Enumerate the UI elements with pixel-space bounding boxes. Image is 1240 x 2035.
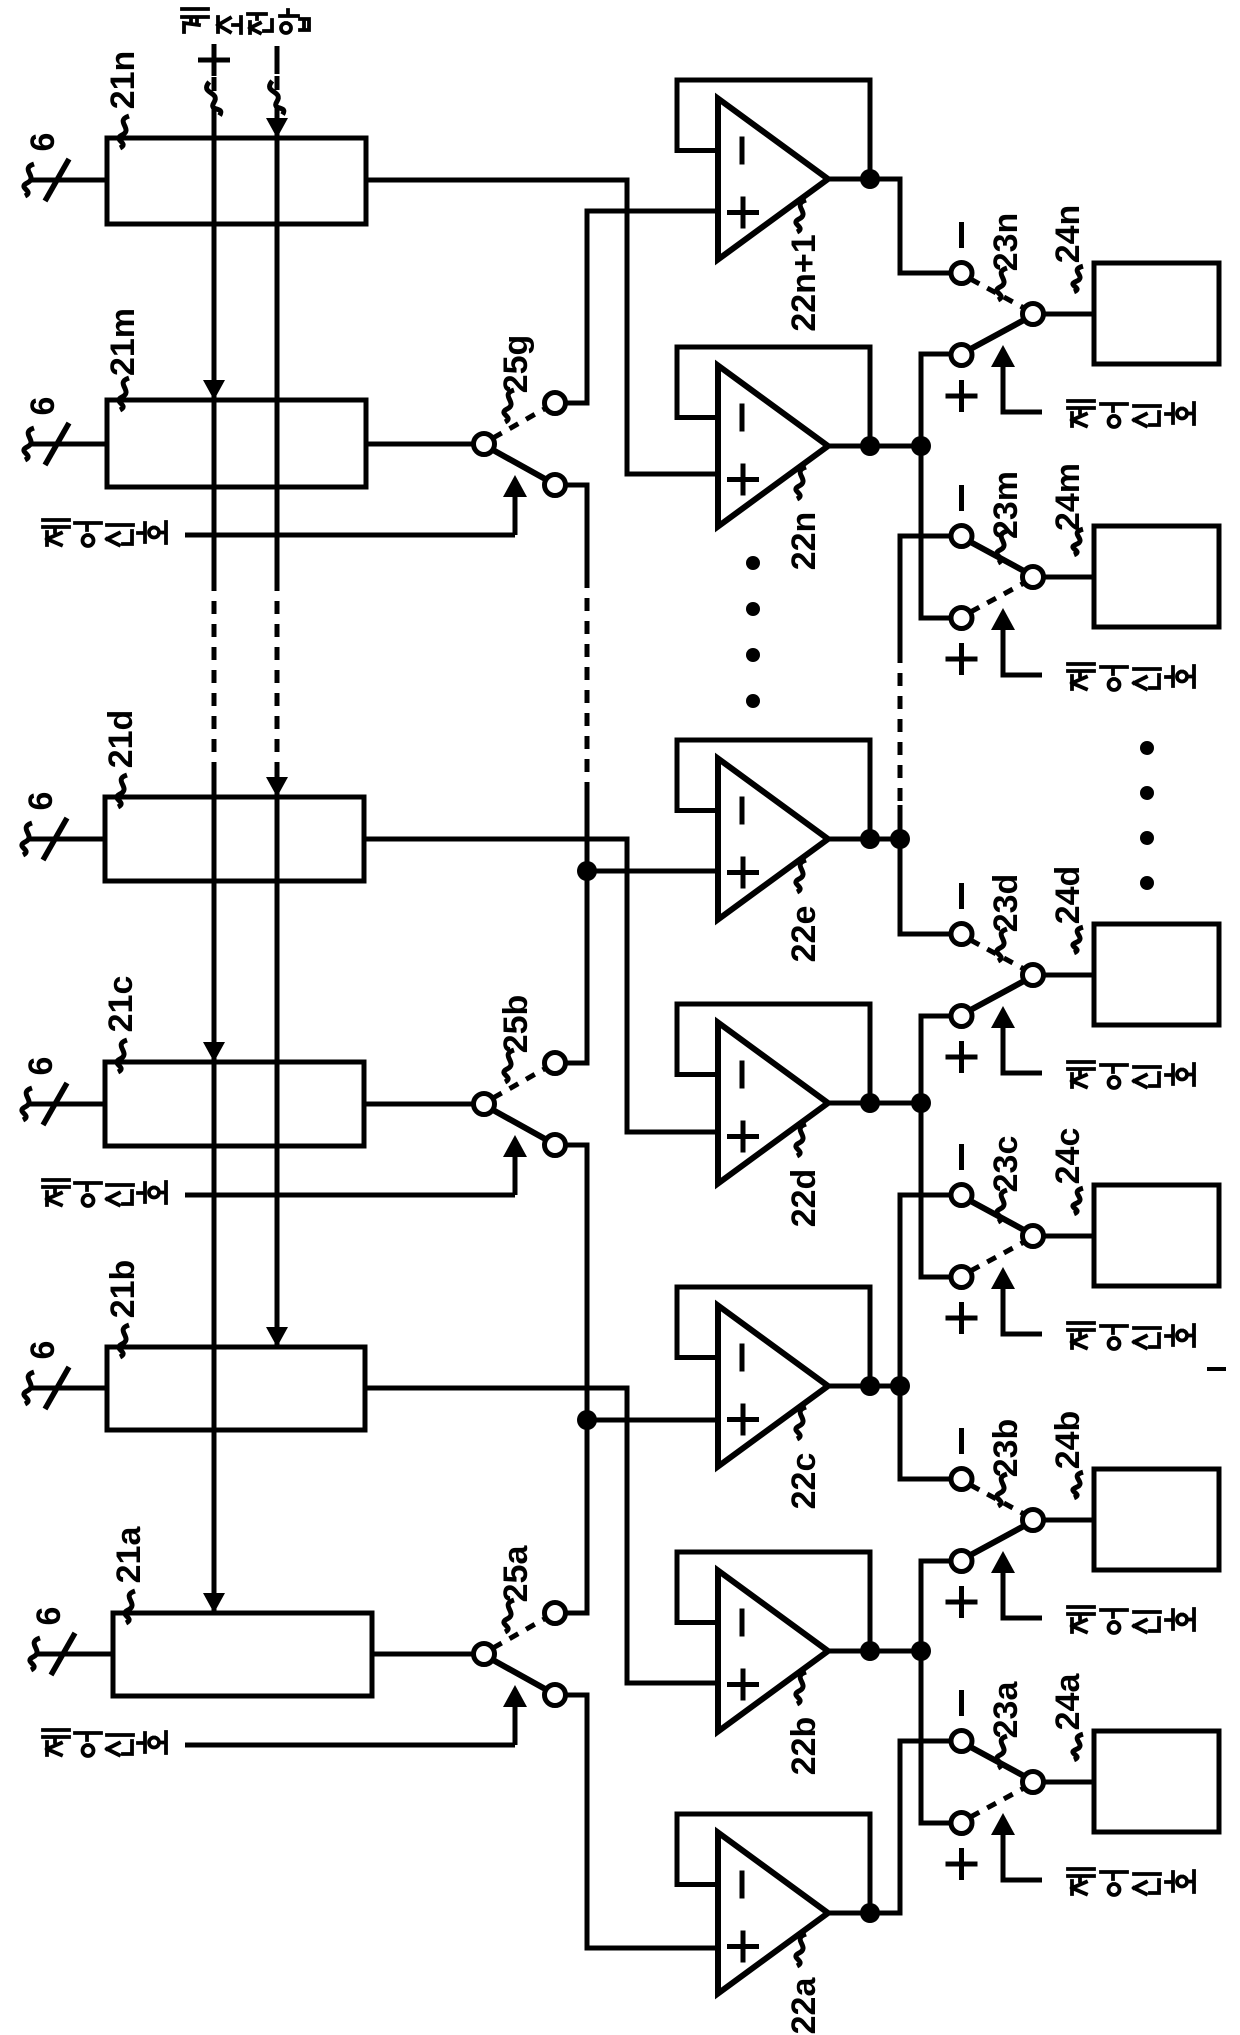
- wire: continue down to 25a upper contact: [566, 1420, 588, 1613]
- omitted stages dots (left): [746, 556, 760, 570]
- svg-text:6: 6: [24, 397, 62, 416]
- op-amp 22n: [718, 366, 828, 527]
- wire: switch 23d output to block 24d: [1044, 973, 1095, 978]
- junction: output node of 22c: [860, 1376, 880, 1396]
- block 24m (output circuit): [1094, 526, 1219, 627]
- switch 25g upper contact: [545, 393, 566, 414]
- label: control signal (Korean) for 23c: [1068, 1323, 1094, 1348]
- svg-text:21d: 21d: [102, 710, 140, 769]
- svg-text:21c: 21c: [102, 976, 140, 1033]
- op-amp 22e non-inverting input sign: [727, 870, 759, 875]
- wire: feedback loop of 22d: [677, 1004, 870, 1103]
- svg-text:24m: 24m: [1049, 463, 1087, 531]
- wire: output of 22d: [826, 1101, 870, 1106]
- wire: input of 21b (6-bit): [30, 1386, 107, 1391]
- wire: switch 23a output to block 24a: [1044, 1780, 1095, 1785]
- switch 23c upper contact: [951, 1185, 972, 1206]
- switch 23b open throw (dashed): [971, 1485, 1025, 1514]
- svg-text:22n: 22n: [785, 512, 823, 571]
- junction: output node of 22n+1: [860, 169, 880, 189]
- svg-text:24n: 24n: [1049, 205, 1087, 264]
- label - (negative polarity) of 23d: [959, 883, 964, 909]
- block 24b (output circuit): [1094, 1469, 1219, 1570]
- wire: switch 23b output to block 24b: [1044, 1518, 1095, 1523]
- svg-text:24d: 24d: [1049, 866, 1087, 925]
- wire: switch 23c output to block 24c: [1044, 1234, 1095, 1239]
- switch 23a lower contact: [951, 1813, 972, 1834]
- control arrow of 23a: [991, 1813, 1015, 1835]
- svg-text:22e: 22e: [785, 906, 823, 963]
- block 21m: [107, 400, 366, 487]
- label + (positive polarity) of 23m: [946, 657, 978, 662]
- bus slash on input of 21m: [45, 423, 69, 465]
- wire: block output into switch 25a: [372, 1652, 474, 1657]
- block 21c: [105, 1062, 364, 1146]
- block 21n: [107, 138, 366, 224]
- label - (negative polarity) of 23m: [959, 485, 964, 511]
- svg-text:21m: 21m: [104, 308, 142, 376]
- node: - gradation voltage terminal: [275, 46, 280, 74]
- wire: input of 21m (6-bit): [30, 442, 107, 447]
- svg-text:22b: 22b: [785, 1717, 823, 1776]
- svg-text:24b: 24b: [1049, 1411, 1087, 1470]
- op-amp 22n+1 non-inverting input sign: [727, 210, 759, 215]
- svg-text:25a: 25a: [497, 1545, 535, 1603]
- switch 25a upper contact: [545, 1603, 566, 1624]
- op-amp 22a inverting input sign: [740, 1871, 745, 1899]
- svg-text:21b: 21b: [104, 1260, 142, 1319]
- switch 25b open throw (dashed): [493, 1068, 546, 1098]
- block 21a: [113, 1613, 372, 1696]
- wire: control signal line of 25g: [185, 533, 515, 538]
- op-amp 22n+1 inverting input sign: [740, 137, 745, 165]
- svg-text:21a: 21a: [110, 1526, 148, 1584]
- svg-text:6: 6: [22, 792, 60, 811]
- junction: node at 22c + input: [577, 1410, 597, 1430]
- switch 23a common contact: [1023, 1772, 1044, 1793]
- switch 25a lower contact: [545, 1685, 566, 1706]
- wire: control signal line of 25b: [185, 1193, 515, 1198]
- switch 23b common contact: [1023, 1510, 1044, 1531]
- switch 23b lever: [971, 1526, 1025, 1555]
- switch 23n upper contact: [951, 263, 972, 284]
- bus slash on input of 21d: [43, 818, 67, 860]
- switch 23m lower contact: [951, 608, 972, 629]
- junction: 22e output to lane: [890, 829, 910, 849]
- switch 25a open throw (dashed): [493, 1618, 546, 1648]
- switch 25a lever: [493, 1660, 547, 1690]
- svg-text:23c: 23c: [987, 1136, 1025, 1193]
- svg-text:22a: 22a: [785, 1977, 823, 2035]
- wire: block output into switch 25g: [366, 442, 474, 447]
- svg-text:23b: 23b: [987, 1419, 1025, 1478]
- wire: output of 22b: [826, 1649, 870, 1654]
- label + (positive polarity) of 23c: [946, 1316, 978, 1321]
- wire: 21d output to 22d + input: [364, 839, 718, 1132]
- svg-text:22n+1: 22n+1: [785, 234, 823, 331]
- label: control signal (Korean) for 25g: [43, 520, 69, 545]
- switch 25g lower contact: [545, 475, 566, 496]
- junction: arrow into 21m: [203, 380, 225, 400]
- control arrow of 25b: [503, 1135, 527, 1157]
- label + (positive polarity) of 23a: [946, 1862, 978, 1867]
- svg-text:23d: 23d: [987, 874, 1025, 933]
- junction: output node of 22e: [860, 829, 880, 849]
- block 21b: [107, 1347, 365, 1430]
- label: control signal (Korean) for 25a: [43, 1730, 69, 1755]
- switch 23c lever: [971, 1201, 1025, 1230]
- block 24a (output circuit): [1094, 1731, 1219, 1832]
- wire: feedback loop of 22c: [677, 1287, 870, 1386]
- label: control signal (Korean) for 23d: [1068, 1062, 1094, 1087]
- switch 23c open throw (dashed): [971, 1242, 1025, 1271]
- label: control signal (Korean) for 23a: [1068, 1869, 1094, 1894]
- control arrow of 23b: [991, 1551, 1015, 1573]
- op-amp 22b: [718, 1571, 828, 1732]
- switch 23d common contact: [1023, 965, 1044, 986]
- junction: arrow into 21a: [203, 1593, 225, 1613]
- op-amp 22n non-inverting input sign: [727, 477, 759, 482]
- control arrow of 23d: [991, 1006, 1015, 1028]
- wire: 22e output lane to 23m upper and 23d upper (dashed through omitted stages): [870, 837, 900, 842]
- block 24c (output circuit): [1094, 1185, 1219, 1286]
- switch 25g lever: [493, 450, 547, 480]
- wire: feedback loop of 22n: [677, 347, 870, 446]
- switch 25b common contact: [474, 1094, 495, 1115]
- wire: output of 22c: [826, 1384, 870, 1389]
- op-amp 22a: [718, 1833, 828, 1994]
- wire: input of 21c (6-bit): [28, 1102, 105, 1107]
- wire: 22c + input: [587, 1418, 718, 1423]
- op-amp 22c: [718, 1306, 828, 1467]
- label - (negative polarity) of 23n: [959, 222, 964, 248]
- switch 23m lever: [971, 542, 1025, 571]
- switch 25b lower contact: [545, 1135, 566, 1156]
- op-amp 22c inverting input sign: [740, 1344, 745, 1372]
- bus slash on input of 21n: [45, 159, 69, 201]
- wire: feedback loop of 22n+1: [677, 80, 870, 179]
- switch 23a open throw (dashed): [971, 1788, 1025, 1817]
- switch 25b lever: [493, 1110, 547, 1140]
- svg-text:21n: 21n: [104, 51, 142, 110]
- wire: + bus vertical (x=214) with break: [212, 77, 217, 91]
- junction: output node of 22d: [860, 1093, 880, 1113]
- svg-text:25g: 25g: [497, 335, 535, 394]
- switch 23c lower contact: [951, 1267, 972, 1288]
- label: control signal (Korean) for 23m: [1068, 664, 1094, 689]
- wire: 22c output lane (23c upper / 23b upper): [870, 1384, 900, 1389]
- wire: input of 21a (6-bit): [36, 1652, 113, 1657]
- op-amp 22e: [718, 759, 828, 920]
- svg-text:24c: 24c: [1049, 1128, 1087, 1185]
- switch 25b upper contact: [545, 1053, 566, 1074]
- switch 23d lever: [971, 981, 1025, 1010]
- svg-text:22d: 22d: [785, 1169, 823, 1228]
- switch 25g open throw (dashed): [493, 408, 546, 438]
- wire: - bus vertical (x=277) with break: [275, 76, 280, 90]
- control arrow of 23n: [991, 345, 1015, 367]
- label: control signal (Korean) for 23n: [1068, 401, 1094, 426]
- wire: 21n output to 22n + input: [366, 180, 718, 474]
- bus slash on input of 21c: [43, 1083, 67, 1125]
- wire: switch 23n output to block 24n: [1044, 312, 1095, 317]
- label - (negative polarity) of 23b: [959, 1428, 964, 1454]
- wire: feedback loop of 22b: [677, 1552, 870, 1651]
- wire: 22b output lane (23b lower / 23a lower): [870, 1649, 921, 1654]
- op-amp 22d: [718, 1023, 828, 1184]
- label + (positive polarity) of 23d: [946, 1055, 978, 1060]
- block 21d: [105, 797, 364, 881]
- svg-text:24a: 24a: [1049, 1673, 1087, 1731]
- wire: 25g upper contact to 22n+1 + input: [566, 211, 719, 403]
- wire: output of 22n+1: [826, 177, 870, 182]
- omitted stages dots (right): [1140, 741, 1154, 755]
- wire: feedback loop of 22e: [677, 740, 870, 839]
- svg-text:6: 6: [22, 1057, 60, 1076]
- switch 23n lever: [971, 320, 1025, 349]
- stray mark: [1207, 1367, 1226, 1371]
- control arrow of 23c: [991, 1267, 1015, 1289]
- wire: 22a output up to 23a upper contact: [870, 1741, 951, 1913]
- switch 23m common contact: [1023, 567, 1044, 588]
- wire: input of 21n (6-bit): [30, 178, 107, 183]
- switch 23n common contact: [1023, 304, 1044, 325]
- svg-text:23n: 23n: [987, 213, 1025, 272]
- svg-text:6: 6: [30, 1607, 68, 1626]
- label: control signal (Korean) for 25b: [43, 1180, 69, 1205]
- junction: node at 22e + input: [577, 861, 597, 881]
- switch 23d upper contact: [951, 924, 972, 945]
- bus slash on input of 21a: [51, 1633, 75, 1675]
- junction: output node of 22n: [860, 436, 880, 456]
- switch 23n lower contact: [951, 345, 972, 366]
- op-amp 22n+1: [718, 99, 828, 260]
- wire: 22d output lane (23d lower / 23c lower): [870, 1101, 921, 1106]
- control arrow of 25a: [503, 1685, 527, 1707]
- switch 23m open throw (dashed): [971, 583, 1025, 612]
- wire: 22n output node lane (23n lower / 23m lower): [870, 444, 921, 449]
- op-amp 22n inverting input sign: [740, 404, 745, 432]
- junction: 22b output to lane: [911, 1641, 931, 1661]
- svg-text:22c: 22c: [785, 1453, 823, 1510]
- switch 23m upper contact: [951, 526, 972, 547]
- switch 23c common contact: [1023, 1226, 1044, 1247]
- wire: input of 21d (6-bit): [28, 837, 105, 842]
- label - (negative polarity) of 23c: [959, 1144, 964, 1170]
- op-amp 22a non-inverting input sign: [727, 1944, 759, 1949]
- svg-text:23a: 23a: [987, 1681, 1025, 1739]
- wire: control signal line of 25a: [185, 1743, 515, 1748]
- junction: arrow into 21c: [203, 1042, 225, 1062]
- node: + gradation voltage terminal: [198, 58, 230, 63]
- wire: 25a lower contact down to 22a + input: [566, 1695, 719, 1948]
- switch 23b lower contact: [951, 1551, 972, 1572]
- junction: 22c output to lane: [890, 1376, 910, 1396]
- wire: output of 22a: [826, 1911, 870, 1916]
- wire: feedback loop of 22a: [677, 1814, 870, 1913]
- wire: output of 22e: [826, 837, 870, 842]
- junction: output node of 22b: [860, 1641, 880, 1661]
- junction: 22n output to lane: [911, 436, 931, 456]
- switch 25g common contact: [474, 434, 495, 455]
- switch 23d open throw (dashed): [971, 940, 1025, 969]
- label: control signal (Korean) for 23b: [1068, 1607, 1094, 1632]
- control arrow of 25g: [503, 475, 527, 497]
- wire: 21b output to 22b + input: [365, 1388, 718, 1683]
- junction: arrow into 21d: [266, 777, 288, 797]
- label + (positive polarity) of 23b: [946, 1600, 978, 1605]
- switch 23d lower contact: [951, 1006, 972, 1027]
- junction: output node of 22a: [860, 1903, 880, 1923]
- wire: 25g lower contact down to 22e + input node (dashed through omitted stages): [566, 485, 588, 575]
- op-amp 22c non-inverting input sign: [727, 1417, 759, 1422]
- switch 23b upper contact: [951, 1469, 972, 1490]
- svg-text:6: 6: [24, 1341, 62, 1360]
- bus slash on input of 21b: [45, 1367, 69, 1409]
- junction: arrow into 21n: [266, 118, 288, 138]
- wire: continue down to 25b upper contact: [566, 871, 588, 1063]
- wire: 22e + input: [587, 869, 718, 874]
- junction: 22d output to lane: [911, 1093, 931, 1113]
- switch 25a common contact: [474, 1644, 495, 1665]
- block 24n (output circuit): [1094, 263, 1219, 364]
- wire: switch 23m output to block 24m: [1044, 575, 1095, 580]
- switch 23n open throw (dashed): [971, 279, 1025, 308]
- svg-text:25b: 25b: [497, 995, 535, 1054]
- top label: Korean text (gradation voltage): [182, 9, 208, 32]
- wire: block output into switch 25b: [364, 1102, 474, 1107]
- op-amp 22b non-inverting input sign: [727, 1682, 759, 1687]
- svg-text:6: 6: [24, 133, 62, 152]
- wire: output of 22n: [826, 444, 870, 449]
- op-amp 22e inverting input sign: [740, 797, 745, 825]
- block 24d (output circuit): [1094, 924, 1219, 1025]
- wire: 25b lower contact down to 22c + input node: [566, 1145, 588, 1420]
- op-amp 22d inverting input sign: [740, 1061, 745, 1089]
- op-amp 22b inverting input sign: [740, 1609, 745, 1637]
- switch 23a upper contact: [951, 1731, 972, 1752]
- label + (positive polarity) of 23n: [946, 394, 978, 399]
- label - (negative polarity) of 23a: [959, 1690, 964, 1716]
- wire: 22n+1 output to 23n upper contact: [870, 179, 951, 273]
- control arrow of 23m: [991, 608, 1015, 630]
- op-amp 22d non-inverting input sign: [727, 1134, 759, 1139]
- junction: arrow into 21b: [266, 1327, 288, 1347]
- switch 23a lever: [971, 1747, 1025, 1776]
